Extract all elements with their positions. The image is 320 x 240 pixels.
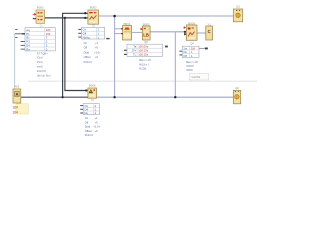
parameter text under T6 (85, 116, 101, 137)
parameter table T9 under B009 (182, 46, 199, 58)
output block Q2 (233, 90, 240, 104)
svg-text:M.23s: M.23s (139, 67, 147, 71)
svg-text:QD: QD (144, 40, 148, 44)
svg-text:+1.0+: +1.0+ (94, 50, 101, 54)
svg-text:LB: LB (143, 33, 149, 38)
reference marks left of T9 (179, 51, 182, 52)
svg-text:Rem = off: Rem = off (186, 60, 198, 64)
parameter table T6 under B006 (83, 104, 99, 116)
junction dot B006 pin (85, 89, 87, 91)
junction dot B002 upper pin (84, 12, 86, 14)
svg-text:B004: B004 (124, 22, 131, 26)
wire: B1 output to B002 lower pin (dark) (45, 17, 88, 19)
parameter text under T1 (37, 51, 51, 77)
block B006 (analog amplifier) (88, 88, 97, 98)
svg-text:No: No (84, 111, 88, 115)
svg-text:(Ile-Up-Sml: (Ile-Up-Sml (37, 74, 51, 78)
open connector red arrow at B009 top pin (183, 27, 185, 29)
comment text box on page line (189, 74, 209, 80)
wire: B009 output to Y1 input (197, 32, 206, 34)
svg-text:Ct: Ct (40, 23, 43, 27)
parameter text under T4 (139, 58, 151, 70)
wire: vertical link x114.6 top net to bottom net (light) (114, 16, 116, 97)
pin stub B1 lower input (33, 18, 36, 19)
svg-text:M.19 s I: M.19 s I (139, 62, 149, 66)
block B002 (88, 10, 99, 24)
svg-text:164: 164 (12, 106, 18, 110)
svg-text:Off: Off (85, 120, 89, 124)
svg-text:Rem = off: Rem = off (139, 58, 151, 62)
parameter text under T2 (84, 41, 102, 64)
open connector red arrow at B005 upper pin (140, 28, 142, 30)
svg-text:StaPBtl: StaPBtl (191, 75, 200, 79)
svg-text:+0: +0 (95, 46, 99, 50)
svg-text:A: A (15, 92, 18, 97)
svg-text:Point 0: Point 0 (84, 60, 93, 64)
svg-text:B003: B003 (37, 6, 44, 10)
open connector red arrow at B1 input (33, 14, 36, 16)
svg-text:100.15s: 100.15s (138, 53, 149, 57)
svg-text:B009: B009 (188, 21, 195, 25)
svg-text:Ct: Ct (92, 24, 95, 28)
svg-text:On: On (84, 41, 88, 45)
wire: B002 output to Q1 (light) (99, 15, 233, 17)
svg-text:+1: +1 (95, 116, 99, 120)
svg-text:Re: Re (26, 47, 30, 51)
svg-text:Ct: Ct (91, 98, 94, 102)
reference marks left of T6 (80, 105, 83, 106)
wire: vertical drop x175.3 from B005 net to bottom net (174, 32, 176, 97)
svg-text:B002: B002 (90, 6, 97, 10)
svg-text:+1: +1 (95, 41, 99, 45)
wire: bottom net B006 to Q2 (light) (97, 96, 234, 98)
wire: vertical riser x62.9 from bottom net up, corner to B002 upper pin (63, 13, 88, 97)
junction dot at bottom of riser x62.9 (61, 96, 63, 98)
svg-text:C: C (208, 29, 211, 34)
reference line right of T9 (199, 47, 205, 49)
reference mark right of T4 (165, 46, 168, 48)
junction dot at (62.9,15.5 area) on B1 output (64, 17, 66, 19)
junction dot bottom net x175.3 (174, 96, 176, 98)
block Y1 (206, 26, 213, 40)
yellow value tooltip under AI3 (16, 104, 28, 114)
wire: reference arrow line from T1 row2 down to AI3 (15, 33, 25, 35)
junction dot B002 lower pin (84, 17, 86, 19)
svg-text:Q2: Q2 (235, 86, 239, 90)
svg-text:Off: Off (183, 54, 187, 58)
input block AI3 (13, 89, 21, 103)
junction dot B009 pin (184, 31, 186, 33)
svg-text:TL: TL (133, 53, 137, 57)
wire: stub B009 second pin (185, 32, 186, 35)
reference marks left of T4 (124, 50, 127, 51)
svg-text:+1.0+: +1.0+ (94, 125, 101, 129)
svg-text:NoAg: NoAg (83, 35, 90, 39)
page break line (28, 80, 257, 82)
svg-text:+0: +0 (95, 55, 99, 59)
svg-text:Q4: Q4 (190, 41, 194, 45)
svg-text:164: 164 (12, 110, 18, 114)
reference mark right of T2 (106, 38, 109, 39)
svg-text:AT TQB+: AT TQB+ (37, 51, 48, 55)
wire: stub into B004 upper pin (115, 28, 123, 30)
block B1 (analog threshold) (36, 10, 45, 23)
svg-text:On: On (85, 116, 89, 120)
pin marks B004 (121, 28, 123, 29)
svg-text:Q1: Q1 (236, 5, 240, 9)
svg-text:Point=0: Point=0 (37, 69, 47, 73)
svg-text:AI3: AI3 (15, 85, 20, 89)
svg-text:B005: B005 (143, 22, 150, 26)
svg-text:Point 0: Point 0 (85, 133, 94, 137)
parameter table T1 under B1 (25, 28, 55, 52)
svg-text:Off=0: Off=0 (186, 68, 193, 72)
svg-text:Offset: Offset (85, 129, 92, 133)
svg-text:+0: +0 (95, 120, 99, 124)
wire: vertical drop x65.4 from B1 output down to B006 input (65, 18, 88, 91)
svg-text:+0: +0 (95, 129, 99, 133)
reference arrow marks left of T1 (22, 33, 25, 34)
block B004 (timer) (123, 26, 132, 41)
block B009 (186, 25, 197, 40)
svg-text:nwd): nwd) (37, 65, 43, 69)
svg-text:B006: B006 (89, 83, 96, 87)
parameter text under T9 (186, 60, 198, 72)
wire: AI3 output to riser junction (dark) (21, 96, 88, 98)
svg-text:Off: Off (84, 46, 88, 50)
junction dot top net x114.6 (113, 15, 116, 18)
svg-text:Dual: Dual (85, 125, 91, 129)
svg-text:Dual: Dual (84, 50, 90, 54)
svg-text:Y1: Y1 (207, 22, 211, 26)
wire: stub into B004 lower pin (115, 33, 123, 35)
junction dot bottom net x114.6 (113, 96, 115, 98)
parameter table T2 under B002 (81, 27, 104, 39)
junction dot B009 second pin (184, 33, 186, 35)
svg-text:tOnt): tOnt) (37, 60, 43, 64)
output block Q1 (233, 9, 242, 22)
parameter table T4 under B004/B005 (127, 44, 163, 56)
block B005 (latching relay) (142, 26, 150, 40)
svg-text:lOnt): lOnt) (37, 56, 43, 60)
wire: B005 output to B009 input (150, 31, 186, 33)
wire: B004 output to B005 input (132, 31, 143, 33)
reference marks left of T2 (78, 29, 81, 30)
svg-text:Ort/O=: Ort/O= (186, 64, 194, 68)
svg-text:Offset: Offset (84, 55, 91, 59)
